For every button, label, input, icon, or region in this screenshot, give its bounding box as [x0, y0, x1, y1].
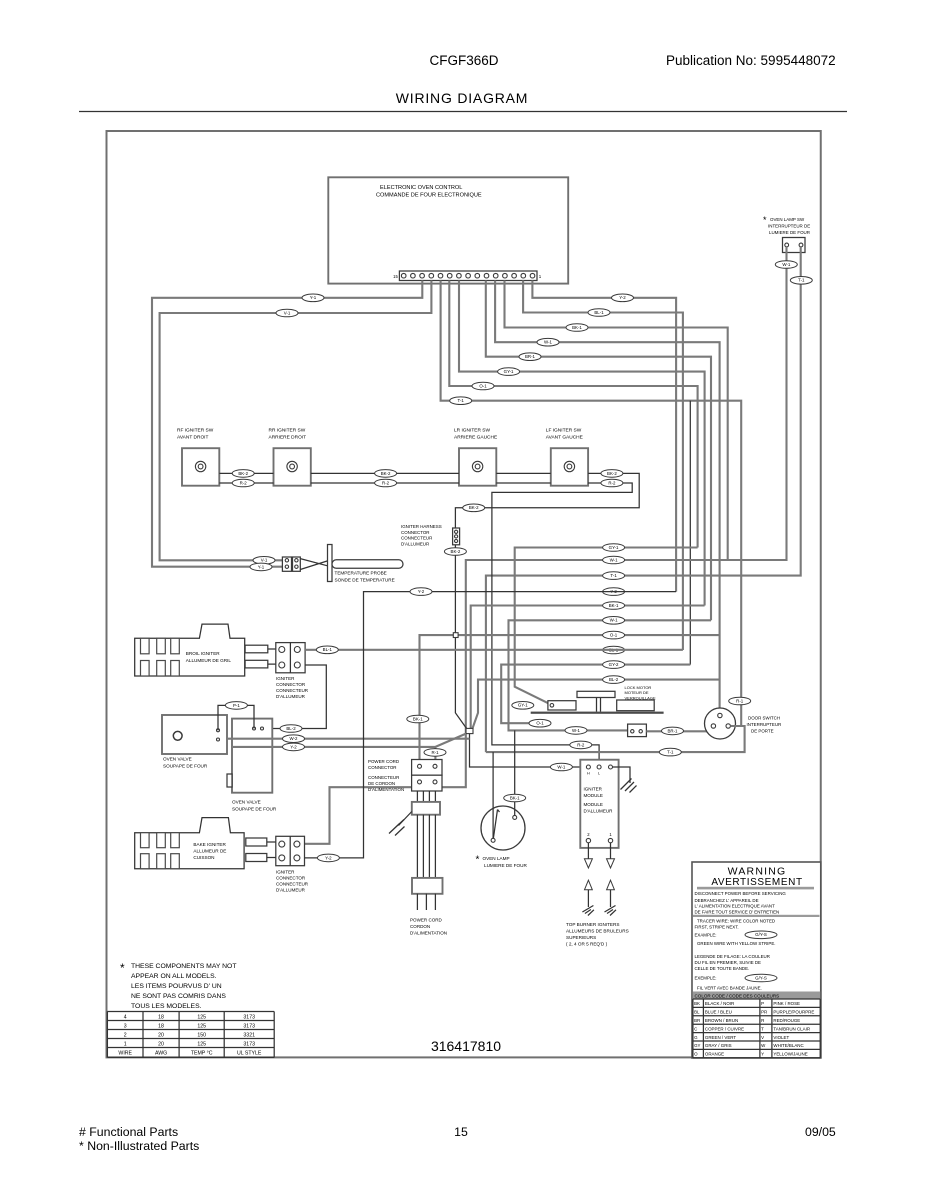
svg-text:VIOLET: VIOLET [773, 1035, 789, 1040]
color code table [693, 992, 820, 1058]
svg-text:Publication No: 5995448072: Publication No: 5995448072 [666, 53, 836, 68]
svg-text:BK-2: BK-2 [238, 471, 248, 476]
svg-text:IGNITER: IGNITER [276, 676, 295, 681]
igniter switch LF contact [564, 461, 574, 471]
igniter module top pins [586, 765, 590, 769]
svg-text:*: * [476, 855, 480, 866]
broil igniter leads [245, 645, 268, 653]
svg-text:W-1: W-1 [572, 728, 581, 733]
svg-text:TAN/BRUN CLAIR: TAN/BRUN CLAIR [773, 1026, 810, 1031]
wire Y-2 bake to control [305, 592, 677, 858]
svg-text:T-1: T-1 [798, 278, 805, 283]
oven lamp filament [493, 810, 497, 839]
svg-text:PINK / ROSE: PINK / ROSE [773, 1001, 800, 1006]
svg-text:3173: 3173 [243, 1024, 255, 1030]
door switch pins [718, 713, 722, 717]
label BL-1 cascade [588, 309, 610, 317]
module ground symbol [621, 779, 637, 793]
bake igniter leads [246, 838, 267, 846]
svg-text:ARRIERE DROIT: ARRIERE DROIT [269, 435, 307, 441]
svg-text:AVANT DROIT: AVANT DROIT [177, 435, 209, 441]
svg-text:R-2: R-2 [240, 480, 248, 485]
power cord connector labels [368, 759, 404, 792]
svg-text:V-1: V-1 [284, 310, 291, 315]
svg-text:NE SONT PAS COMRIS DANS: NE SONT PAS COMRIS DANS [131, 993, 226, 1000]
svg-text:CONNECTOR: CONNECTOR [276, 876, 306, 881]
wire BR-1 lock to door switch [646, 730, 713, 732]
oven lamp switch pins [785, 243, 789, 247]
wire BK-1 terminal3 cascade [505, 281, 728, 561]
svg-text:R-1: R-1 [431, 750, 439, 755]
igniter switch LF labels [546, 428, 583, 441]
lock cam switch box [628, 724, 647, 737]
svg-text:G/Y-S: G/Y-S [755, 975, 767, 980]
svg-text:OVEN LAMP: OVEN LAMP [483, 856, 510, 861]
bake lead wires [267, 842, 276, 858]
svg-text:15: 15 [454, 1125, 468, 1139]
svg-text:IGNITER: IGNITER [276, 870, 295, 875]
label R-1 powercord [424, 749, 446, 757]
oven lamp switch S2 box [783, 238, 806, 253]
svg-text:R-2: R-2 [608, 480, 616, 485]
wire W-1 rung6 to lock switch [509, 620, 712, 730]
label BK-2 e [444, 548, 466, 556]
svg-text:CONNECTEUR: CONNECTEUR [276, 688, 309, 693]
svg-text:BLUE / BLEU: BLUE / BLEU [705, 1010, 732, 1015]
wire T-1 terminal8 cascade to door switch [441, 281, 742, 727]
svg-text:*: * [763, 215, 767, 225]
temperature probe connector pins [285, 559, 288, 562]
svg-text:RF IGNITER SW: RF IGNITER SW [177, 428, 214, 434]
lock switch box [548, 701, 576, 710]
label W-1 lock [565, 727, 587, 735]
probe bowtie wires [300, 559, 327, 570]
wire T-1 lamp up [492, 752, 494, 838]
wire V-1 terminal to probe [160, 281, 432, 561]
svg-text:GY-1: GY-1 [609, 545, 619, 550]
wire BL-2 broil to oven valve [262, 665, 326, 729]
svg-text:V: V [761, 1035, 764, 1040]
svg-text:VERROUILLAGE: VERROUILLAGE [625, 695, 656, 700]
svg-text:18: 18 [158, 1024, 164, 1030]
svg-text:COMMANDE DE FOUR ELECTRONIQ: COMMANDE DE FOUR ELECTRONIQUE [376, 193, 482, 199]
door switch labels [747, 716, 782, 734]
svg-text:THESE COMPONENTS MAY NOT: THESE COMPONENTS MAY NOT [131, 963, 237, 970]
svg-text:AWG: AWG [155, 1051, 167, 1057]
svg-text:BK-1: BK-1 [413, 716, 423, 721]
label BL-1 broil [316, 646, 338, 654]
svg-text:DOOR SWITCH: DOOR SWITCH [748, 716, 780, 721]
label W-2 valve [283, 735, 305, 743]
svg-text:LES ITEMS POURVUS D' UN: LES ITEMS POURVUS D' UN [131, 983, 222, 990]
svg-text:20: 20 [158, 1042, 164, 1048]
svg-text:GY: GY [694, 1043, 700, 1048]
svg-text:FIRST, STRIPE NEXT.: FIRST, STRIPE NEXT. [695, 924, 739, 929]
svg-text:COLOR CODE / CODE DES C: COLOR CODE / CODE DES COULEURS [695, 994, 780, 999]
svg-text:LEGENDE DE FILAGE: LA COU: LEGENDE DE FILAGE: LA COULEUR [695, 954, 770, 959]
svg-text:LR IGNITER SW: LR IGNITER SW [454, 428, 490, 434]
svg-text:3321: 3321 [243, 1033, 255, 1039]
wire R-2 LF to igniter module [492, 483, 632, 767]
svg-text:BL: BL [694, 1010, 700, 1015]
wire gauge table [107, 1012, 274, 1058]
wire P-1 valve to valve [218, 705, 254, 730]
svg-text:G/Y-S: G/Y-S [755, 932, 767, 937]
svg-text:150: 150 [197, 1033, 206, 1039]
igniter switch RF contact [195, 461, 205, 471]
wire W-2 valve [227, 738, 470, 740]
spark output arrow pin 2 [587, 843, 589, 859]
svg-text:CFGF366D: CFGF366D [429, 53, 498, 68]
rung wire labels column [603, 544, 625, 684]
svg-text:H: H [587, 772, 590, 776]
label Y-2 rung [410, 588, 432, 596]
wire Y-1 terminal to probe [152, 281, 422, 567]
svg-text:W-1: W-1 [557, 764, 566, 769]
svg-text:ALLUMEUR DE GRIL: ALLUMEUR DE GRIL [186, 658, 232, 663]
svg-text:ALLUMEURS DE BRULEURS: ALLUMEURS DE BRULEURS [566, 929, 629, 934]
warning box frame and notices [692, 862, 821, 1058]
svg-text:GY-1: GY-1 [504, 369, 514, 374]
lock motor M1 top bar [577, 691, 615, 697]
svg-text:D'ALLUMEUR: D'ALLUMEUR [276, 888, 306, 893]
svg-text:MODULE: MODULE [584, 802, 603, 807]
svg-text:O: O [694, 1052, 698, 1057]
svg-text:GRAY / GRIS: GRAY / GRIS [705, 1043, 732, 1048]
svg-text:GREEN / VERT: GREEN / VERT [705, 1035, 737, 1040]
lock motor body box [617, 700, 655, 711]
svg-text:R-2: R-2 [382, 480, 390, 485]
svg-text:CELLE DE TOUTE BANDE.: CELLE DE TOUTE BANDE. [695, 966, 750, 971]
svg-text:O-1: O-1 [610, 633, 618, 638]
oven valve V1 pins [217, 729, 220, 732]
wire O-1 terminal7 cascade [449, 281, 697, 548]
bake igniter slots [141, 833, 180, 869]
label Y-2 valve [283, 743, 305, 751]
power cord labels [410, 918, 447, 936]
label O-1 cascade [472, 382, 494, 390]
label T-1 lamp sw [790, 277, 812, 285]
power cord strain relief [412, 802, 440, 815]
label BK-1 powercord [407, 715, 429, 723]
broil igniter connector pins [279, 647, 285, 653]
label W-1 module [550, 763, 572, 771]
wire BK-2 RR to LR [311, 472, 459, 474]
igniter switch RR labels [269, 428, 307, 441]
svg-text:BK-1: BK-1 [609, 603, 619, 608]
svg-text:OVEN VALVE: OVEN VALVE [232, 800, 261, 805]
oven lamp pins [513, 815, 517, 819]
bake igniter E2 outline [135, 818, 244, 869]
merge node B square [466, 728, 473, 733]
igniter module bottom pins [586, 838, 590, 842]
svg-text:RR IGNITER SW: RR IGNITER SW [269, 428, 306, 434]
label T-1 cascade [450, 397, 472, 405]
svg-text:IGNITER: IGNITER [584, 787, 603, 792]
lock switch pin [550, 704, 554, 708]
svg-text:WIRE: WIRE [118, 1051, 132, 1057]
temperature probe labels [335, 571, 395, 583]
label BK-2 a [232, 470, 254, 478]
svg-text:MODULE: MODULE [584, 793, 603, 798]
oven valve V2 box [232, 719, 272, 793]
svg-text:DE CORDON: DE CORDON [368, 781, 395, 786]
broil igniter connector box [276, 643, 305, 673]
svg-text:GY-1: GY-1 [518, 703, 528, 708]
svg-text:V-1: V-1 [261, 558, 268, 563]
wire BK-2 LR to LF [496, 472, 551, 474]
label R-2 b [375, 479, 397, 487]
svg-text:D'ALIMENTATION: D'ALIMENTATION [410, 931, 447, 936]
svg-text:BL-1: BL-1 [594, 310, 604, 315]
svg-text:BR-1: BR-1 [667, 728, 678, 733]
svg-text:CONNECTOR: CONNECTOR [276, 682, 306, 687]
svg-text:D'ALLUMEUR: D'ALLUMEUR [584, 808, 614, 813]
bake igniter labels [193, 842, 226, 860]
svg-text:T-1: T-1 [458, 398, 465, 403]
broil igniter labels [186, 651, 232, 663]
wire BK-2 LF to harness connector [455, 473, 639, 528]
svg-text:Y-2: Y-2 [418, 589, 425, 594]
svg-text:EXAMPLE:: EXAMPLE: [695, 932, 717, 937]
svg-text:R-1: R-1 [736, 698, 744, 703]
label R-2 c [601, 479, 623, 487]
svg-text:ARRIERE GAUCHE: ARRIERE GAUCHE [454, 435, 497, 441]
wire T-1 door switch to lamp [486, 726, 745, 752]
wire GY-1 terminal6 cascade [459, 281, 705, 606]
svg-text:RED/ROUGE: RED/ROUGE [773, 1018, 800, 1023]
svg-text:GREEN WIRE WITH YELLOW STR: GREEN WIRE WITH YELLOW STRIPE. [697, 941, 775, 946]
label BL-2 valve [280, 725, 302, 733]
igniter harness connector labels [401, 524, 442, 546]
wire BL-1 terminal2 cascade [523, 281, 683, 651]
svg-text:( 2, 4 OR 5 REQ'D ): ( 2, 4 OR 5 REQ'D ) [566, 942, 608, 947]
svg-text:ELECTRONIC OVEN CONTROL: ELECTRONIC OVEN CONTROL [380, 185, 462, 191]
label V-1 probe [253, 557, 275, 565]
power cord plug body [412, 878, 443, 894]
svg-text:1: 1 [124, 1042, 127, 1048]
svg-text:SONDE DE TEMPERATURE: SONDE DE TEMPERATURE [335, 578, 395, 583]
broil connector labels [276, 676, 309, 699]
label BK-1 cascade [566, 324, 588, 332]
svg-text:BL-1: BL-1 [323, 647, 333, 652]
label W-1 cascade [537, 338, 559, 346]
bake connector labels [276, 870, 309, 893]
svg-text:AVERTISSEMENT: AVERTISSEMENT [711, 877, 802, 888]
label BK-2 d [463, 504, 485, 512]
svg-text:Y-2: Y-2 [290, 744, 297, 749]
svg-text:G: G [694, 1035, 698, 1040]
svg-text:W-1: W-1 [544, 340, 553, 345]
svg-text:BL-2: BL-2 [609, 677, 619, 682]
svg-text:BLACK / NOIR: BLACK / NOIR [705, 1001, 734, 1006]
power cord wires upper [417, 791, 435, 802]
svg-text:R: R [761, 1018, 764, 1023]
igniter harness connector pins [455, 530, 458, 533]
wire BL-1 broil to cascade [305, 649, 683, 651]
svg-text:TRACER WIRE: WIRE COLOR: TRACER WIRE: WIRE COLOR NOTED [697, 918, 775, 923]
svg-text:P-1: P-1 [233, 703, 240, 708]
svg-text:COPPER / CUIVRE: COPPER / CUIVRE [705, 1026, 744, 1031]
svg-text:WHITE/BLANC: WHITE/BLANC [773, 1043, 804, 1048]
svg-text:POWER CORD: POWER CORD [368, 759, 399, 764]
wire R-2 LR to LF [496, 482, 551, 484]
svg-text:CORDON: CORDON [410, 924, 430, 929]
oven valve V2 bump [227, 774, 232, 787]
oven valve V1 box [162, 715, 227, 754]
wire BR-1 terminal5 cascade [486, 281, 711, 621]
svg-text:BK: BK [694, 1001, 700, 1006]
wire BL-2 rung10 [473, 680, 720, 729]
svg-text:BK-2: BK-2 [381, 471, 391, 476]
svg-text:CUISSON: CUISSON [193, 855, 214, 860]
svg-text:Y-1: Y-1 [258, 564, 265, 569]
oven valve V1 port [173, 731, 182, 740]
igniter switch LR labels [454, 428, 497, 441]
svg-text:DU FIL EN PREMIER, SUIVIE: DU FIL EN PREMIER, SUIVIE DE [695, 960, 762, 965]
svg-text:T-1: T-1 [610, 573, 617, 578]
lock cam switch pins [631, 730, 634, 733]
svg-text:APPEAR ON ALL MODELS.: APPEAR ON ALL MODELS. [131, 973, 217, 980]
power cord wires lower [417, 815, 435, 878]
svg-text:CONNECTOR: CONNECTOR [401, 530, 430, 535]
svg-text:BAKE IGNITER: BAKE IGNITER [193, 842, 226, 847]
svg-text:SOUPAPE DE FOUR: SOUPAPE DE FOUR [232, 807, 277, 812]
svg-text:PR: PR [761, 1010, 767, 1015]
svg-text:UL STYLE: UL STYLE [237, 1051, 262, 1057]
oven valve V1 labels [163, 757, 208, 769]
wire node B to igniter module H [470, 734, 589, 767]
svg-text:T-1: T-1 [667, 750, 674, 755]
svg-text:DE FAIRE TOUT SERVICE D': DE FAIRE TOUT SERVICE D' ENTRETIEN [695, 909, 780, 914]
svg-text:20: 20 [158, 1033, 164, 1039]
svg-text:316417810: 316417810 [431, 1038, 501, 1054]
power cord connector upper pins [418, 764, 422, 768]
oven lamp DS1 bulb [481, 806, 525, 850]
svg-text:BK-2: BK-2 [451, 549, 461, 554]
label BK-2 b [375, 470, 397, 478]
label O-1 lock [529, 719, 551, 727]
svg-text:125: 125 [197, 1015, 206, 1021]
svg-text:BROIL IGNITER: BROIL IGNITER [186, 651, 221, 656]
svg-text:BK-2: BK-2 [607, 471, 617, 476]
label GY-1 lever [512, 702, 534, 710]
svg-text:DISCONNECT POWER BEFORE SER: DISCONNECT POWER BEFORE SERVICING [695, 891, 787, 896]
models footnote [120, 961, 237, 1010]
svg-text:TEMP °C: TEMP °C [191, 1051, 213, 1057]
label V-1 top [276, 309, 298, 317]
broil igniter E1 outline [135, 624, 245, 676]
EOC terminal strip [399, 271, 537, 281]
power cord plug prongs [417, 894, 435, 910]
igniter switch RF labels [177, 428, 214, 441]
svg-text:TOP BURNER IGNITERS: TOP BURNER IGNITERS [566, 922, 619, 927]
temperature probe crossbar [328, 545, 333, 582]
top burner igniter arrow 2 [585, 880, 593, 890]
svg-text:D'ALLUMEUR: D'ALLUMEUR [276, 694, 306, 699]
svg-text:3173: 3173 [243, 1042, 255, 1048]
oven valve V2 labels [232, 800, 277, 812]
temperature probe connector boxes [282, 557, 291, 571]
svg-text:INTERRUPTEUR DE: INTERRUPTEUR DE [768, 224, 810, 229]
electronic oven control U1 box [328, 177, 568, 283]
spark output arrow pin 1 [610, 843, 612, 859]
svg-text:R-2: R-2 [577, 742, 585, 747]
wire O-1 rung7 power cord [420, 635, 720, 766]
svg-text:D'ALIMENTATION: D'ALIMENTATION [368, 787, 404, 792]
svg-text:Y: Y [761, 1052, 764, 1057]
power cord connector upper box [412, 760, 442, 776]
label BR-1 cascade [519, 353, 541, 361]
wire module pin3 to ground [613, 767, 631, 783]
wire BK-1 lamp up [514, 730, 516, 815]
igniter switch RR contact [287, 461, 297, 471]
label R-2 module [570, 741, 592, 749]
label GY-1 cascade [498, 368, 520, 376]
igniter switch RR box [274, 448, 311, 486]
svg-text:Y-2: Y-2 [325, 855, 332, 860]
igniter switch RF box [182, 448, 219, 486]
svg-text:WIRING DIAGRAM: WIRING DIAGRAM [396, 90, 529, 106]
svg-text:CONNECTEUR: CONNECTEUR [401, 536, 432, 541]
svg-text:YELLOW/JAUNE: YELLOW/JAUNE [773, 1052, 807, 1057]
label Y-2 bake [317, 854, 339, 862]
door switch S3 body [705, 708, 736, 739]
junction node A square [453, 633, 458, 638]
label BK-2 c [601, 470, 623, 478]
svg-text:WARNING: WARNING [728, 866, 787, 878]
label Y-1 probe [250, 563, 272, 571]
svg-text:125: 125 [197, 1024, 206, 1030]
svg-text:125: 125 [197, 1042, 206, 1048]
top burner igniters labels [566, 922, 629, 947]
svg-text:AVANT GAUCHE: AVANT GAUCHE [546, 435, 583, 441]
broil igniter slots [141, 638, 180, 676]
svg-text:POWER CORD: POWER CORD [410, 918, 443, 923]
svg-text:W-2: W-2 [290, 736, 299, 741]
bake igniter connector pins [279, 841, 285, 847]
oven lamp labels [476, 855, 528, 869]
svg-text:2: 2 [124, 1033, 127, 1039]
wire T-1 lamp switch down [486, 247, 801, 752]
svg-text:15: 15 [393, 274, 398, 279]
svg-text:L: L [598, 772, 600, 776]
label BR-1 lock [662, 727, 684, 735]
svg-text:O-1: O-1 [536, 721, 544, 726]
svg-text:BR-1: BR-1 [525, 354, 536, 359]
svg-text:GY-2: GY-2 [609, 662, 619, 667]
temperature probe rod [332, 560, 403, 569]
svg-text:TOUS LES MODELES.: TOUS LES MODELES. [131, 1003, 202, 1010]
bake igniter connector box [276, 836, 305, 865]
igniter switch LR contact [472, 461, 482, 471]
svg-text:3173: 3173 [243, 1015, 255, 1021]
svg-text:OVEN LAMP SW: OVEN LAMP SW [770, 217, 805, 222]
igniter switch LR box [459, 448, 496, 486]
svg-text:SUPERIEURS: SUPERIEURS [566, 935, 596, 940]
main border frame [107, 131, 821, 1057]
wire Y-2 terminal1 cascade [532, 281, 676, 592]
svg-text:W-1: W-1 [610, 557, 619, 562]
label R-1 door [729, 697, 751, 705]
svg-text:IGNITER HARNESS: IGNITER HARNESS [401, 524, 442, 529]
svg-text:# Functional Parts: # Functional Parts [79, 1125, 178, 1139]
svg-text:PURPLE/POURPRE: PURPLE/POURPRE [773, 1010, 814, 1015]
EOC terminal pins 15..1 [401, 273, 534, 278]
svg-text:O-1: O-1 [479, 383, 487, 388]
wire GY-1 rung1 to lock lever [515, 548, 698, 704]
title underline [79, 111, 847, 113]
